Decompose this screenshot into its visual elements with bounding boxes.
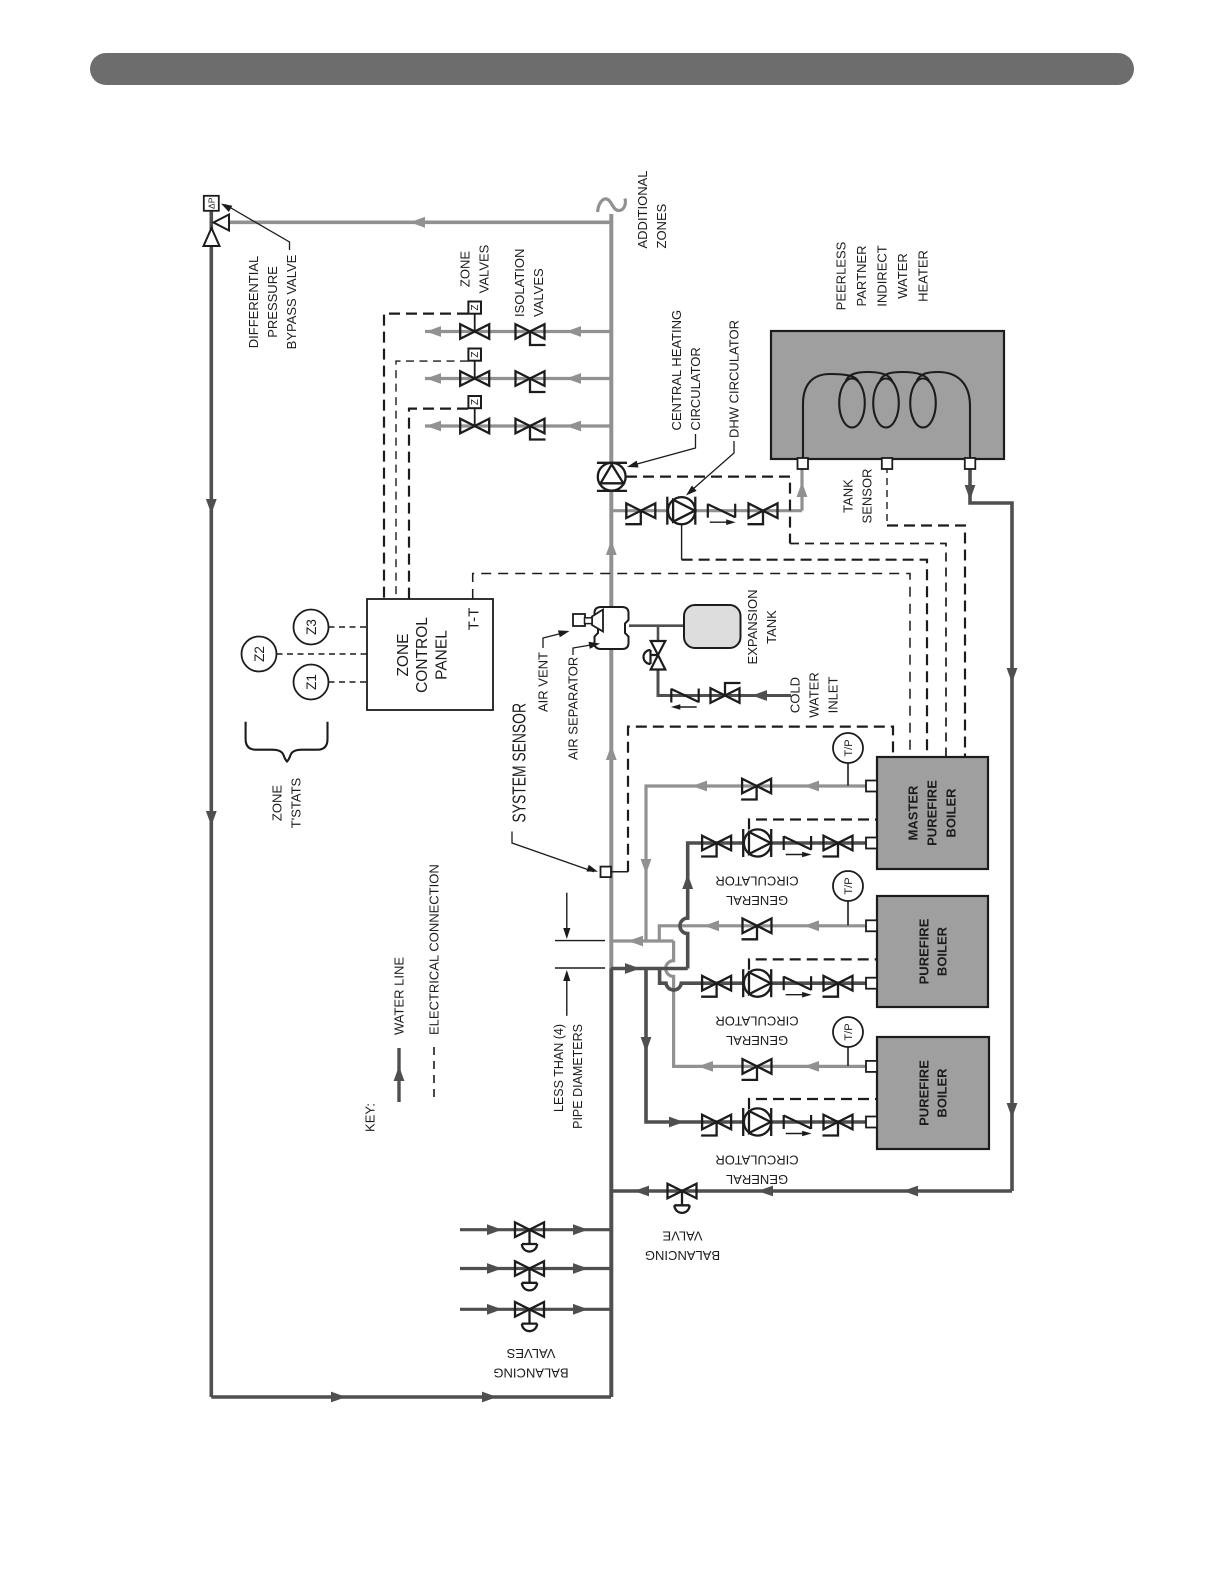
boiler 1 general circulator pump — [743, 829, 771, 857]
wire main return riser — [609, 969, 613, 1398]
wire zone valve 3 control — [409, 409, 468, 599]
svg-text:SENSOR: SENSOR — [860, 469, 875, 524]
wire balancing valve return — [611, 1189, 1012, 1193]
isolation valve 2 — [516, 371, 546, 392]
svg-text:AIR VENT: AIR VENT — [536, 652, 551, 712]
boiler 2 body — [877, 896, 988, 1007]
water heater coil — [803, 372, 970, 459]
leader arrowhead air separator — [589, 640, 601, 649]
label central heating circulator — [669, 310, 703, 431]
flow arrow boiler 3 supply outer — [804, 1061, 819, 1072]
flow arrow zone branch 1 outer — [426, 326, 441, 337]
boiler 3 return check valve — [784, 1115, 812, 1136]
zone valve 1 actuator label — [470, 305, 481, 311]
flow arrow left drop down 1 — [206, 499, 217, 514]
master boiler supply port — [866, 781, 877, 792]
svg-text:VALVE: VALVE — [662, 1229, 702, 1244]
label balancing valve — [645, 1229, 720, 1264]
flow arrow zone branch 2 inner — [566, 373, 581, 384]
svg-text:GENERAL: GENERAL — [726, 1172, 788, 1187]
label Z2 — [252, 646, 267, 662]
label key — [363, 1103, 378, 1132]
wire boiler 3 supply — [666, 941, 867, 1066]
DHW branch gate valve — [625, 503, 655, 524]
flow arrow bank row 2 outer — [487, 1263, 502, 1274]
flow arrow boiler 3 return down — [641, 1037, 652, 1052]
dimension arrow lower line — [566, 973, 568, 1016]
zone valve 2 — [460, 371, 489, 386]
wire boiler 1 return — [680, 843, 867, 969]
zone thermostat Z2 circle — [242, 637, 277, 672]
leader air vent — [543, 632, 566, 648]
balancing valve bank 2 — [515, 1261, 544, 1290]
boiler 1 supply gate valve — [741, 779, 771, 800]
zone valve 2 actuator label — [470, 352, 481, 358]
svg-text:LESS THAN (4): LESS THAN (4) — [552, 1024, 566, 1112]
flow arrow boiler 1 return up — [682, 874, 693, 889]
T/P gauge master boiler — [833, 733, 863, 763]
flow arrow bank row 1 inner — [573, 1224, 588, 1235]
leader air separator — [573, 644, 597, 655]
flow arrow supply header left — [628, 936, 643, 947]
T/P gauge boiler 2 stem — [847, 901, 849, 925]
label general circulator 2 — [715, 1014, 798, 1049]
flow arrow bank row 3 outer — [487, 1304, 502, 1315]
svg-text:WATER: WATER — [807, 672, 822, 718]
flow arrow water heater outlet down — [965, 485, 976, 500]
flow arrow bank row 3 inner — [573, 1304, 588, 1315]
svg-text:INDIRECT: INDIRECT — [875, 245, 890, 306]
boiler 2 supply gate valve — [742, 919, 772, 940]
flow arrow zone branch 3 inner — [566, 421, 581, 432]
bypass valve triangle vertical — [204, 228, 220, 246]
zone thermostat Z1 circle — [294, 665, 329, 700]
svg-text:VALVES: VALVES — [477, 244, 492, 293]
flow arrow DHW riser up — [797, 482, 808, 497]
wire bottom return rail — [211, 1395, 611, 1399]
label general circulator 3 — [715, 1153, 798, 1188]
svg-text:BOILER: BOILER — [935, 926, 950, 976]
flow arrow zone branch 2 outer — [426, 373, 441, 384]
zone thermostat Z3 circle — [294, 610, 329, 645]
flow arrow bottom rail 2 — [482, 1392, 497, 1403]
label zone control panel — [395, 617, 450, 693]
DHW check valve — [708, 504, 736, 525]
leader DHW circulator — [689, 441, 735, 493]
svg-text:ZONE: ZONE — [458, 251, 473, 287]
svg-text:ΔP: ΔP — [206, 197, 216, 209]
zone tstats brace — [246, 722, 328, 762]
svg-text:PANEL: PANEL — [433, 630, 450, 680]
label peerless partner indirect water heater — [834, 241, 931, 310]
flow arrow balancing return 3 — [903, 1186, 918, 1197]
zone valve 1 — [460, 324, 489, 339]
svg-text:BOILER: BOILER — [935, 1068, 950, 1118]
boiler 3 supply gate valve — [742, 1059, 772, 1080]
flow arrow return header right — [625, 963, 640, 974]
leader arrowhead CH circulator — [626, 461, 639, 471]
svg-text:Z: Z — [470, 352, 481, 358]
label differential pressure bypass valve — [246, 254, 299, 349]
differential pressure sensor box — [204, 196, 219, 211]
wire central heating circulator control — [626, 477, 790, 544]
zone valve 3 stem — [474, 408, 476, 426]
cold water shutoff valve — [711, 683, 741, 703]
central heating circulator pump — [597, 463, 627, 491]
dimension arrow upper line — [566, 893, 568, 936]
water heater body — [771, 331, 1004, 459]
T/P gauge boiler 3 — [833, 1017, 863, 1047]
svg-text:Z1: Z1 — [304, 674, 319, 690]
svg-text:ZONE: ZONE — [270, 785, 285, 821]
wire boiler 2 pump control — [749, 959, 877, 969]
wire system sensor to boiler — [628, 727, 893, 872]
key water line sample — [397, 1048, 400, 1102]
leader arrowhead DHW circulator — [684, 486, 697, 499]
svg-text:ZONES: ZONES — [654, 203, 669, 248]
svg-text:ZONE: ZONE — [395, 633, 412, 676]
wire zone valve 1 control — [384, 314, 468, 599]
zone valve 2 stem — [474, 361, 476, 379]
svg-text:Z: Z — [470, 399, 481, 405]
leader to dP sensor — [225, 205, 290, 251]
boiler 1 return inlet valve — [701, 836, 731, 857]
boiler 2 return outlet valve — [823, 976, 853, 997]
svg-text:GENERAL: GENERAL — [726, 1033, 788, 1048]
water heater coil loop 2 — [873, 379, 899, 428]
svg-text:HEATER: HEATER — [916, 250, 931, 302]
wire boiler 3 return — [646, 969, 867, 1123]
wire return header from main — [611, 967, 688, 971]
svg-text:VALVES: VALVES — [531, 268, 546, 317]
flow arrow bank row 2 inner — [573, 1263, 588, 1274]
flow arrow bottom rail 1 — [331, 1392, 346, 1403]
label Z3 — [304, 619, 319, 635]
leader arrowhead system sensor — [586, 865, 599, 875]
svg-text:PUREFIRE: PUREFIRE — [925, 780, 940, 846]
flow arrow cold water left — [752, 690, 767, 701]
T/P gauge boiler 3 stem — [847, 1047, 849, 1066]
bypass valve triangle horizontal — [214, 215, 230, 231]
DHW circulator pump — [667, 497, 695, 525]
boiler 3 body — [877, 1037, 989, 1149]
wire boiler 2 supply — [659, 926, 866, 941]
svg-text:ISOLATION: ISOLATION — [512, 249, 527, 317]
boiler 1 return check valve — [784, 836, 812, 857]
water heater sensor port — [882, 458, 893, 469]
wire zone tstat Z1 — [329, 681, 368, 683]
svg-text:T-T: T-T — [466, 608, 483, 631]
wire balancing bank row 3 — [460, 1308, 611, 1311]
svg-text:EXPANSION: EXPANSION — [745, 590, 760, 665]
svg-text:Z3: Z3 — [304, 619, 319, 635]
air vent stem — [585, 618, 593, 624]
svg-text:MASTER: MASTER — [906, 785, 921, 841]
zone control panel — [367, 599, 493, 710]
water heater outlet port — [965, 458, 976, 469]
key electrical sample — [433, 1047, 435, 1103]
T/P gauge master boiler stem — [847, 763, 849, 786]
master boiler return port — [866, 838, 877, 849]
boiler 2 return inlet valve — [701, 976, 731, 997]
label purefire boiler 2 — [917, 918, 950, 984]
label air vent — [536, 652, 551, 712]
dimension tick upper — [555, 940, 605, 942]
flow arrow bank row 1 outer — [487, 1224, 502, 1235]
label balancing valves — [493, 1346, 568, 1381]
air separator body — [595, 607, 629, 649]
wire zone branch 2 — [425, 377, 611, 380]
flow arrow boiler 1 supply drop — [641, 859, 652, 874]
label air separator — [566, 657, 581, 760]
boiler 3 return port — [866, 1117, 877, 1128]
svg-text:CENTRAL HEATING: CENTRAL HEATING — [669, 310, 684, 431]
label master purefire boiler — [906, 780, 959, 846]
svg-text:T/P: T/P — [843, 739, 855, 756]
svg-text:GENERAL: GENERAL — [726, 893, 788, 908]
wire DHW riser to water heater — [800, 464, 803, 511]
label T/P 3 — [843, 1023, 855, 1040]
svg-text:BALANCING: BALANCING — [493, 1366, 568, 1381]
fill pressure reducing valve — [644, 641, 666, 670]
svg-text:SYSTEM SENSOR: SYSTEM SENSOR — [509, 703, 530, 823]
svg-text:INLET: INLET — [826, 677, 841, 714]
wire main supply riser — [609, 214, 613, 969]
svg-text:KEY:: KEY: — [363, 1103, 378, 1132]
title bar — [90, 53, 1134, 85]
label zone tstats — [270, 777, 304, 828]
svg-text:PUREFIRE: PUREFIRE — [917, 1060, 932, 1126]
svg-text:TANK: TANK — [764, 610, 779, 644]
leader central heating circulator — [631, 434, 696, 466]
flow arrow right return down 2 — [1007, 1103, 1018, 1118]
svg-text:BYPASS VALVE: BYPASS VALVE — [284, 254, 299, 349]
svg-text:WATER LINE: WATER LINE — [392, 957, 407, 1035]
label T-T terminals — [466, 608, 483, 631]
wire DHW branch — [611, 509, 802, 512]
air vent body — [573, 614, 585, 626]
wire left return drop — [210, 211, 214, 1397]
svg-text:VALVES: VALVES — [506, 1346, 555, 1361]
flow arrow boiler 1 supply outer — [804, 781, 819, 792]
boiler 2 return port — [866, 978, 877, 989]
dimension tick lower — [555, 967, 605, 969]
label general circulator 1 — [715, 874, 798, 909]
flow arrow right return down 1 — [1007, 668, 1018, 683]
svg-text:PRESSURE: PRESSURE — [265, 266, 280, 338]
zone valve 3 — [460, 419, 489, 434]
wire boiler 1 pump control — [749, 820, 877, 830]
wire zone tstat Z2 — [277, 653, 368, 655]
boiler 2 general circulator pump — [743, 969, 771, 997]
svg-text:CONTROL: CONTROL — [414, 617, 431, 693]
flow arrow top rail — [410, 217, 425, 228]
label cold water inlet — [788, 672, 841, 718]
wire system sensor stub — [611, 871, 628, 873]
zone valve 1 actuator box — [468, 302, 481, 314]
label tank sensor — [841, 469, 875, 524]
leader arrowhead dP — [219, 200, 232, 212]
svg-text:CIRCULATOR: CIRCULATOR — [715, 1153, 798, 1168]
label dP — [206, 197, 216, 209]
flow arrow left drop down 2 — [206, 811, 217, 826]
zone valve 3 actuator box — [468, 396, 481, 408]
wire DHW circulator control — [682, 560, 927, 757]
balancing valve bank 1 — [515, 1222, 544, 1251]
boiler 3 return inlet valve — [701, 1115, 731, 1136]
zone valve 1 stem — [474, 314, 476, 332]
wire cold water inlet line — [658, 670, 791, 696]
label DHW circulator — [727, 320, 742, 438]
wire fill valve drop — [657, 626, 660, 641]
wire CH circulator control to boiler — [790, 544, 946, 758]
svg-text:T/P: T/P — [843, 877, 855, 894]
wire supply header to main — [611, 939, 674, 942]
svg-text:Z2: Z2 — [252, 646, 267, 662]
label T/P 2 — [843, 877, 855, 894]
svg-text:T/P: T/P — [843, 1023, 855, 1040]
wire DHW circulator stem — [681, 524, 683, 560]
leader arrowhead air vent — [558, 628, 570, 638]
water heater inlet port — [798, 458, 809, 469]
svg-text:CIRCULATOR: CIRCULATOR — [688, 347, 703, 430]
svg-text:BALANCING: BALANCING — [645, 1248, 720, 1263]
wire T-T panel to master boiler — [473, 574, 910, 758]
isolation valve 1 — [516, 324, 546, 345]
label T/P 1 — [843, 739, 855, 756]
master boiler body — [877, 757, 988, 869]
svg-text:PARTNER: PARTNER — [854, 246, 869, 307]
wire balancing bank row 1 — [460, 1228, 611, 1231]
DHW outlet gate valve — [748, 503, 778, 524]
dimension arrowhead lower — [563, 970, 570, 981]
svg-text:PEERLESS: PEERLESS — [834, 241, 849, 310]
boiler 3 supply port — [866, 1061, 877, 1072]
svg-text:T'STATS: T'STATS — [289, 777, 304, 828]
T/P gauge boiler 2 — [833, 871, 863, 901]
label key electrical connection — [427, 864, 442, 1035]
svg-text:COLD: COLD — [788, 677, 803, 713]
flow arrow balancing return 1 — [634, 1186, 649, 1197]
label less than 4 pipe diameters — [552, 1024, 585, 1129]
label additional zones — [635, 170, 669, 248]
svg-text:WATER: WATER — [895, 253, 910, 299]
isolation valve 3 — [516, 419, 546, 440]
svg-text:TANK: TANK — [841, 479, 856, 513]
flow arrow boiler 3 supply inner — [698, 1061, 713, 1072]
flow arrow zone branch 1 inner — [566, 326, 581, 337]
leader system sensor — [512, 832, 594, 872]
flow arrow balancing return 2 — [758, 1186, 773, 1197]
wire tank sensor stem — [886, 466, 888, 526]
flow arrow main supply up 2 — [606, 745, 617, 760]
flow arrow boiler 1 supply inner — [692, 781, 707, 792]
svg-text:ELECTRICAL CONNECTION: ELECTRICAL CONNECTION — [427, 864, 442, 1035]
expansion tank — [684, 605, 741, 648]
boiler 3 general circulator pump — [743, 1108, 771, 1136]
svg-text:DIFFERENTIAL: DIFFERENTIAL — [246, 256, 261, 348]
svg-text:CIRCULATOR: CIRCULATOR — [715, 1014, 798, 1029]
flow arrow boiler 3 return right — [669, 1117, 684, 1128]
wire air separator to expansion tank — [629, 624, 684, 627]
flow arrow boiler 2 supply outer — [804, 920, 819, 931]
boiler 2 return check valve — [784, 976, 812, 997]
dimension arrowhead upper — [563, 928, 570, 939]
boiler 2 supply port — [866, 920, 877, 931]
label isolation valves — [512, 249, 546, 317]
balancing valve bank 3 — [515, 1302, 544, 1331]
pipe break symbol additional zones — [598, 199, 626, 213]
key water line arrow — [394, 1066, 405, 1081]
svg-text:DHW CIRCULATOR: DHW CIRCULATOR — [727, 320, 742, 438]
flow arrow boiler 2 supply inner — [704, 920, 719, 931]
system balancing valve — [668, 1184, 697, 1213]
wire balancing bank row 2 — [460, 1267, 611, 1270]
wire boiler 2 return — [660, 969, 867, 991]
wire supply top rail — [219, 221, 611, 225]
label purefire boiler 3 — [917, 1060, 950, 1126]
svg-text:PIPE DIAMETERS: PIPE DIAMETERS — [571, 1024, 585, 1129]
boiler 3 return outlet valve — [823, 1115, 853, 1136]
svg-text:CIRCULATOR: CIRCULATOR — [715, 874, 798, 889]
flow arrow zone branch 3 outer — [426, 421, 441, 432]
label expansion tank — [745, 590, 779, 665]
svg-text:PUREFIRE: PUREFIRE — [917, 918, 932, 984]
svg-text:ADDITIONAL: ADDITIONAL — [635, 170, 650, 248]
label Z1 — [304, 674, 319, 690]
svg-text:Z: Z — [470, 305, 481, 311]
zone valve 3 actuator label — [470, 399, 481, 405]
wire zone branch 3 — [425, 424, 611, 427]
system sensor box — [601, 867, 612, 878]
wire tank sensor to boiler — [887, 526, 965, 758]
water heater coil loop 3 — [910, 379, 936, 428]
flow arrow main supply up 1 — [606, 540, 617, 555]
air vent neck — [592, 610, 603, 632]
boiler 1 return outlet valve — [823, 836, 853, 857]
svg-text:AIR SEPARATOR: AIR SEPARATOR — [566, 657, 581, 760]
label system sensor — [509, 703, 530, 823]
wire boiler 1 supply — [646, 786, 867, 941]
wire water heater outlet — [970, 464, 1012, 1191]
svg-text:BOILER: BOILER — [944, 788, 959, 838]
water heater coil loop 1 — [839, 379, 865, 428]
label key water line — [392, 957, 407, 1035]
wire boiler 3 pump control — [749, 1099, 877, 1109]
wire zone valve 2 control — [396, 361, 468, 599]
zone valve 2 actuator box — [468, 349, 481, 361]
label zone valves — [458, 244, 492, 293]
wire zone tstat Z3 — [329, 626, 368, 628]
cold water check valve — [671, 689, 699, 710]
wire zone branch 1 — [425, 330, 611, 333]
